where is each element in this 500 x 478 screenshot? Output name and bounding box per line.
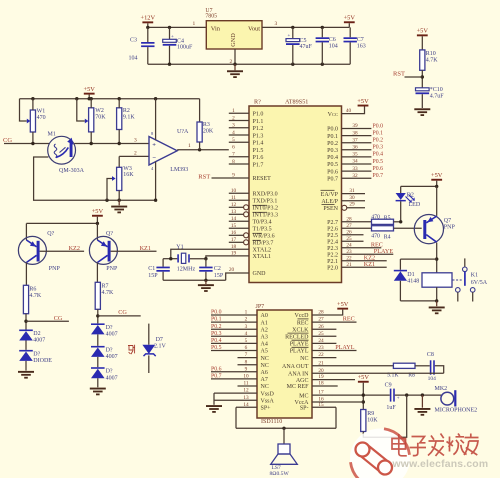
svg-text:13: 13 xyxy=(243,395,249,401)
wire C9 to microphone xyxy=(395,394,442,396)
ISD pin 12 VssD xyxy=(214,392,257,394)
wire ISD pin 23 PLAYL xyxy=(312,350,357,352)
svg-text:RECLED: RECLED xyxy=(285,335,309,341)
svg-text:4007: 4007 xyxy=(33,338,45,344)
MCU pin 33 P0.6 xyxy=(342,170,372,172)
svg-text:R3: R3 xyxy=(203,122,210,128)
svg-text:D1: D1 xyxy=(407,272,414,278)
svg-text:P0.4: P0.4 xyxy=(327,155,338,161)
svg-text:RST: RST xyxy=(393,71,405,78)
svg-text:3: 3 xyxy=(232,123,235,129)
MCU pin 36 P0.3 xyxy=(342,149,372,151)
svg-text:4: 4 xyxy=(245,331,248,337)
svg-text:SP-: SP- xyxy=(300,406,309,412)
svg-text:PLAYL: PLAYL xyxy=(335,344,355,351)
svg-text:A2: A2 xyxy=(261,327,268,333)
svg-text:P0.5: P0.5 xyxy=(327,162,338,168)
svg-text:P1.4: P1.4 xyxy=(253,141,264,147)
svg-text:P0.7: P0.7 xyxy=(373,173,384,179)
svg-text:RD/P3.7: RD/P3.7 xyxy=(253,241,274,247)
MCU pin 35 P0.4 xyxy=(342,156,372,158)
ISD pin 11 NC xyxy=(238,385,258,387)
svg-text:+: + xyxy=(171,35,174,40)
svg-text:C9: C9 xyxy=(385,382,392,388)
svg-text:A4: A4 xyxy=(261,342,268,348)
svg-text:5: 5 xyxy=(232,137,235,143)
wire M1 heater loop xyxy=(34,157,156,200)
svg-text:4007: 4007 xyxy=(106,354,118,360)
svg-text:8: 8 xyxy=(245,359,248,365)
wire MCU pin 25 stub xyxy=(342,240,364,242)
svg-text:9.1K: 9.1K xyxy=(123,115,135,121)
svg-text:104: 104 xyxy=(428,376,437,382)
wire M1 out to op-amp pin 3 xyxy=(74,143,149,145)
capacitor C9 1uF xyxy=(390,389,392,402)
svg-text:GND: GND xyxy=(230,33,237,47)
svg-text:MC REF: MC REF xyxy=(287,384,310,390)
svg-text:7: 7 xyxy=(245,352,248,358)
wire R7 to diodes / CG node xyxy=(97,309,99,323)
wire +5V rail from U7 Vout xyxy=(262,26,349,28)
microphone MK2 xyxy=(441,392,454,405)
resistor R9 10K xyxy=(361,410,366,432)
svg-text:PLAYL: PLAYL xyxy=(290,349,309,355)
wire op-amp output pin 1 xyxy=(177,149,229,151)
svg-text:35: 35 xyxy=(352,152,358,158)
svg-text:29: 29 xyxy=(349,201,355,207)
resistor R10 4.7K xyxy=(420,50,425,70)
svg-text:A7: A7 xyxy=(261,377,268,383)
MCU pin 29 PSEN xyxy=(342,205,347,210)
svg-text:P0.2: P0.2 xyxy=(327,141,338,147)
transistor Q? PNP left xyxy=(25,223,27,240)
svg-text:Q?: Q? xyxy=(47,231,54,237)
MCU pin 10 RXD/P3.0 xyxy=(229,192,249,194)
svg-text:13: 13 xyxy=(231,209,237,215)
ground ISD Vss xyxy=(206,405,222,407)
svg-text:P1.1: P1.1 xyxy=(253,119,264,125)
svg-text:P0.5: P0.5 xyxy=(211,345,222,351)
svg-text:PNP: PNP xyxy=(106,266,118,272)
ISD pin 14 SP+ xyxy=(236,406,257,408)
wire ISD pin 26 stub xyxy=(312,328,336,330)
svg-text:C5: C5 xyxy=(300,38,307,44)
wire ISD pin 25 stub xyxy=(312,335,336,337)
MCU pin 1 P1.0 xyxy=(229,112,249,114)
wire +12V stem xyxy=(147,23,149,27)
capacitor C2 15P xyxy=(205,259,207,267)
wire XTAL2 pin 18 xyxy=(171,249,249,258)
svg-text:6V/5A: 6V/5A xyxy=(471,280,488,286)
wire top rail +12V to U7 Vin xyxy=(148,26,207,28)
MCU pin 4 P1.3 xyxy=(229,134,249,136)
svg-text:P2.2: P2.2 xyxy=(327,253,338,259)
svg-text:NC: NC xyxy=(261,363,269,369)
svg-text:3: 3 xyxy=(245,324,248,330)
svg-text:47uF: 47uF xyxy=(300,44,313,50)
MCU pin 40 Vcc xyxy=(342,106,365,113)
svg-text:16K: 16K xyxy=(123,172,134,178)
wire VssD VssA to ground xyxy=(213,393,215,405)
ground right diode chain xyxy=(90,388,106,390)
svg-text:D7: D7 xyxy=(156,337,163,343)
wire MCU pin 26 stub xyxy=(342,234,364,236)
svg-text:104: 104 xyxy=(129,56,138,62)
gas sensor M1 QM-303A xyxy=(48,136,76,164)
svg-text:1: 1 xyxy=(193,21,196,27)
svg-text:100uF: 100uF xyxy=(177,45,193,51)
voltage regulator U7 7805 xyxy=(206,21,262,49)
wire MCU pin 23 PLAYE xyxy=(342,253,394,255)
wire R8 to C8 xyxy=(415,365,430,367)
svg-text:MC: MC xyxy=(299,393,308,399)
svg-text:RST: RST xyxy=(198,173,210,180)
svg-text:P2.0: P2.0 xyxy=(327,266,338,272)
capacitor C3 xyxy=(147,27,149,42)
svg-text:9: 9 xyxy=(245,366,248,372)
ISD pin 13 VssA xyxy=(214,399,257,401)
resistor R3 20K xyxy=(199,99,201,122)
capacitor C8 104 xyxy=(430,360,432,374)
MCU pin 37 P0.2 xyxy=(342,142,372,144)
svg-text:A3: A3 xyxy=(261,335,268,341)
wire ISD pin 22 stub xyxy=(312,357,336,359)
svg-text:D?: D? xyxy=(106,347,113,353)
svg-text:AGC: AGC xyxy=(296,378,309,384)
svg-text:W2: W2 xyxy=(95,108,104,114)
diode D? 4007 first xyxy=(91,323,105,325)
svg-text:4007: 4007 xyxy=(106,332,118,338)
svg-text:2.1V: 2.1V xyxy=(154,343,167,349)
wire RST to R10/C10 node xyxy=(405,76,423,78)
MCU pin 9 RESET xyxy=(212,177,250,179)
svg-text:R10: R10 xyxy=(426,51,436,57)
svg-text:8Ω0.5W: 8Ω0.5W xyxy=(270,471,290,477)
wire mic bias vertical xyxy=(362,383,364,410)
MCU pin 38 P0.1 xyxy=(342,135,372,137)
svg-text:P0.6: P0.6 xyxy=(327,169,338,175)
svg-text:+5V: +5V xyxy=(337,301,349,308)
svg-text:P0.0: P0.0 xyxy=(373,123,384,129)
ISD pin 3 A2 xyxy=(211,328,257,330)
MCU pin 12 INT0/P3.2 xyxy=(229,206,244,208)
resistor R6 4.7K xyxy=(23,285,28,313)
svg-text:6: 6 xyxy=(232,145,235,151)
svg-text:70K: 70K xyxy=(95,115,106,121)
capacitor C5 47uF xyxy=(292,27,294,38)
ground under relay xyxy=(436,301,438,306)
svg-text:4.7K: 4.7K xyxy=(102,290,115,296)
ISD pin 9 A6 xyxy=(211,371,257,373)
svg-text:12: 12 xyxy=(243,388,249,394)
wire ISD pin 21 ANA OUT to R8 xyxy=(312,365,393,367)
svg-text:P2.7: P2.7 xyxy=(327,220,338,226)
svg-text:P2.5: P2.5 xyxy=(327,233,338,239)
svg-text:P2.4: P2.4 xyxy=(327,240,338,246)
svg-text:P1.0: P1.0 xyxy=(253,112,264,118)
op-amp U?A LM393 xyxy=(149,137,177,166)
svg-text:KZ1: KZ1 xyxy=(140,245,151,252)
svg-text:31: 31 xyxy=(349,188,355,194)
resistor R4 470 xyxy=(372,226,394,231)
wire sensor +5V rail xyxy=(20,98,200,100)
svg-text:D2: D2 xyxy=(407,193,414,199)
svg-text:D?: D? xyxy=(106,369,113,375)
svg-text:34: 34 xyxy=(352,159,358,165)
svg-text:15: 15 xyxy=(231,223,237,229)
MCU pin 39 P0.0 xyxy=(342,128,372,130)
svg-text:R4: R4 xyxy=(384,235,391,241)
svg-text:JP7: JP7 xyxy=(256,304,265,310)
ground sensor loop xyxy=(118,200,120,205)
wire R9 feedback loop xyxy=(363,395,406,437)
svg-text:+5V: +5V xyxy=(358,374,370,381)
transistor Q? PNP right xyxy=(96,223,98,240)
MCU pin 30 ALE/P xyxy=(342,200,366,202)
svg-text:P0.3: P0.3 xyxy=(211,331,222,337)
svg-text:4148: 4148 xyxy=(407,279,419,285)
wire D1 bottom to relay xyxy=(400,300,436,302)
svg-text:7805: 7805 xyxy=(205,14,217,20)
wire Q? right collector xyxy=(96,263,98,283)
svg-text:15P: 15P xyxy=(214,273,224,279)
svg-text:C3: C3 xyxy=(130,38,137,44)
svg-text:www.elecfans.com: www.elecfans.com xyxy=(392,459,489,470)
resistor R5 470 xyxy=(372,219,394,224)
svg-text:RESET: RESET xyxy=(253,176,272,182)
svg-text:15P: 15P xyxy=(148,273,158,279)
svg-text:KZ1: KZ1 xyxy=(364,261,375,268)
svg-text:M1: M1 xyxy=(48,132,56,138)
svg-text:P0.4: P0.4 xyxy=(211,338,222,344)
svg-text:PNP: PNP xyxy=(49,266,61,272)
svg-text:MICROPHONE2: MICROPHONE2 xyxy=(435,407,478,413)
svg-text:12MHz: 12MHz xyxy=(177,267,196,273)
svg-text:KZ2: KZ2 xyxy=(69,245,80,252)
svg-text:P0.1: P0.1 xyxy=(327,134,338,140)
svg-text:ANA IN: ANA IN xyxy=(288,371,309,377)
wire Q? left base KZ2 xyxy=(40,250,85,252)
svg-text:11: 11 xyxy=(231,195,236,201)
svg-text:A0: A0 xyxy=(261,313,268,319)
svg-text:PSEN: PSEN xyxy=(323,206,338,212)
svg-text:QM-303A: QM-303A xyxy=(59,168,85,174)
MCU pin 31 EA/VP xyxy=(342,193,366,195)
svg-text:P0.0: P0.0 xyxy=(327,127,338,133)
svg-text:W3: W3 xyxy=(123,166,132,172)
svg-text:T1/P3.5: T1/P3.5 xyxy=(253,227,272,233)
wire Q7 emitter to +5V xyxy=(436,186,438,215)
svg-text:RXD/P3.0: RXD/P3.0 xyxy=(253,192,278,198)
wire crystal ground rail xyxy=(163,279,226,281)
svg-text:11: 11 xyxy=(243,381,248,387)
svg-text:P0.3: P0.3 xyxy=(327,148,338,154)
svg-text:R7: R7 xyxy=(102,284,109,290)
svg-text:R5: R5 xyxy=(384,216,391,222)
watermark text elecfans chinese xyxy=(392,434,479,457)
svg-text:17: 17 xyxy=(231,237,237,243)
svg-text:LED: LED xyxy=(409,202,421,208)
svg-text:7: 7 xyxy=(232,152,235,158)
wire U7 GND pin 2 xyxy=(234,49,236,64)
MCU pin 13 INT1/P3.3 xyxy=(229,213,244,215)
svg-text:Q7: Q7 xyxy=(444,218,451,224)
svg-text:R9: R9 xyxy=(367,411,374,417)
svg-text:INT0/P3.2: INT0/P3.2 xyxy=(253,206,279,212)
relay coil K1 xyxy=(422,273,452,287)
svg-text:SP+: SP+ xyxy=(261,406,272,412)
svg-text:P2.3: P2.3 xyxy=(327,246,338,252)
ISD pin 7 NC xyxy=(238,357,258,359)
svg-text:−: − xyxy=(152,155,156,162)
ground left diode chain xyxy=(18,371,34,373)
svg-text:W1: W1 xyxy=(37,109,46,115)
svg-text:PLAYE: PLAYE xyxy=(374,248,394,255)
MCU pin 20 GND xyxy=(226,273,249,280)
svg-text:+5V: +5V xyxy=(431,172,443,179)
svg-text:P0.2: P0.2 xyxy=(211,324,222,330)
svg-text:3: 3 xyxy=(275,21,278,27)
svg-text:DIODE: DIODE xyxy=(33,358,52,364)
capacitor C6 104 xyxy=(321,27,323,37)
svg-text:20K: 20K xyxy=(203,128,214,134)
zener diode D7 2.1V xyxy=(148,324,150,345)
wire op-amp V- pin 4 xyxy=(155,162,157,201)
svg-text:+: + xyxy=(152,142,156,149)
svg-text:P0.0: P0.0 xyxy=(211,310,222,316)
wire MCU pin 27 to R4 xyxy=(342,227,372,229)
svg-text:3: 3 xyxy=(134,138,137,144)
wire CG to M1 xyxy=(4,143,50,145)
svg-text:6: 6 xyxy=(245,345,248,351)
svg-text:30: 30 xyxy=(349,195,355,201)
ISD pin 10 A7 xyxy=(211,378,257,380)
svg-text:P1.6: P1.6 xyxy=(253,155,264,161)
svg-text:C7: C7 xyxy=(357,37,364,43)
capacitor C1 15P xyxy=(162,259,164,267)
svg-text:ALE/P: ALE/P xyxy=(321,199,338,205)
svg-text:+: + xyxy=(397,397,400,402)
svg-text:R?: R? xyxy=(254,99,261,106)
svg-text:4.7uF: 4.7uF xyxy=(430,94,445,100)
svg-text:GND: GND xyxy=(253,271,267,277)
svg-text:NC: NC xyxy=(261,384,269,390)
svg-text:Y1: Y1 xyxy=(176,245,183,251)
diode D? 4007 third xyxy=(97,357,99,367)
wire ISD pin 15 SP- to speaker xyxy=(312,406,336,408)
svg-text:470: 470 xyxy=(37,115,46,121)
svg-text:REC: REC xyxy=(297,320,309,326)
wire LED top to +5V xyxy=(401,185,437,187)
svg-text:ANA OUT: ANA OUT xyxy=(282,364,309,370)
svg-text:P1.7: P1.7 xyxy=(253,162,264,168)
svg-text:PNP: PNP xyxy=(444,224,456,230)
ground under C10 xyxy=(414,108,430,110)
svg-text:WR/P3.6: WR/P3.6 xyxy=(253,234,275,240)
svg-text:4.7K: 4.7K xyxy=(426,58,439,64)
potentiometer W2 70K xyxy=(77,99,85,121)
svg-text:14: 14 xyxy=(243,402,249,408)
ISD pin 4 A3 xyxy=(211,335,257,337)
resistor R2 9.1K xyxy=(117,108,122,130)
wire ISD pin 18 stub xyxy=(312,385,338,387)
wire R10 to C10 xyxy=(421,70,423,88)
svg-text:P0.7: P0.7 xyxy=(327,176,338,182)
svg-text:U?A: U?A xyxy=(177,129,189,135)
svg-text:+5V: +5V xyxy=(344,15,356,22)
svg-text:LM393: LM393 xyxy=(170,167,188,173)
relay contact linkage dashed xyxy=(453,279,463,281)
svg-text:VssA: VssA xyxy=(261,398,275,404)
svg-text:P0.6: P0.6 xyxy=(373,166,384,172)
svg-text:32: 32 xyxy=(352,173,358,179)
wire MCU pin 22 KZ2 xyxy=(342,260,387,262)
svg-text:4.7K: 4.7K xyxy=(29,293,42,299)
svg-text:TXD/P3.1: TXD/P3.1 xyxy=(253,199,278,205)
wire CG stub right xyxy=(98,315,141,317)
wire driver rail xyxy=(26,222,97,224)
svg-text:8: 8 xyxy=(232,159,235,165)
svg-text:Q?: Q? xyxy=(106,231,113,237)
svg-text:ISD1110: ISD1110 xyxy=(261,419,282,425)
svg-text:470: 470 xyxy=(371,215,380,221)
capacitor C7 163 xyxy=(349,27,351,37)
MCU pin 8 P1.7 xyxy=(229,163,249,165)
svg-text:4007: 4007 xyxy=(106,375,118,381)
svg-text:C2: C2 xyxy=(214,266,221,272)
wire R4 to Q7 base xyxy=(394,227,422,229)
svg-text:1: 1 xyxy=(188,143,191,149)
capacitor C4 100uF xyxy=(169,27,171,39)
MCU pin 34 P0.5 xyxy=(342,163,372,165)
svg-text:+: + xyxy=(288,34,291,39)
svg-text:P0.5: P0.5 xyxy=(373,159,384,165)
ISD pin 6 A5 xyxy=(211,350,257,352)
wire CG stub left xyxy=(26,320,69,322)
svg-text:EA/VP: EA/VP xyxy=(321,192,339,198)
MCU pin 14 T0/P3.4 xyxy=(229,220,249,222)
diode D1 4148 xyxy=(399,259,401,270)
svg-text:R2: R2 xyxy=(123,108,130,114)
wire op-amp pin 2 xyxy=(119,155,149,157)
wire speaker bottom xyxy=(236,427,336,429)
wire Q7 collector to relay xyxy=(436,243,438,273)
ISD pin 8 NC xyxy=(238,364,258,366)
wire MCU pin 24 REC xyxy=(342,247,382,249)
ground under U7 xyxy=(234,64,236,70)
svg-text:D?: D? xyxy=(33,351,40,357)
svg-text:104: 104 xyxy=(329,43,338,49)
svg-text:1: 1 xyxy=(245,310,248,316)
voice chip JP7 ISD1110 xyxy=(257,310,312,418)
svg-text:K1: K1 xyxy=(471,273,478,279)
svg-text:XTAL1: XTAL1 xyxy=(253,254,272,260)
svg-text:CG: CG xyxy=(118,309,127,316)
ground microphone xyxy=(421,395,423,408)
MCU pin 3 P1.2 xyxy=(229,127,249,129)
speaker LS7 xyxy=(283,428,285,444)
svg-text:5: 5 xyxy=(245,338,248,344)
label alternative Chinese or xyxy=(128,345,135,354)
wire D1 top xyxy=(400,258,436,260)
svg-text:+5V: +5V xyxy=(357,98,369,105)
svg-text:38: 38 xyxy=(352,130,358,136)
ISD pin 1 A0 xyxy=(211,314,257,316)
microcontroller U? AT89S51 xyxy=(249,106,342,283)
svg-text:MK2: MK2 xyxy=(435,386,448,392)
svg-text:+5V: +5V xyxy=(417,28,429,35)
diode D? 4007 second xyxy=(97,334,99,346)
